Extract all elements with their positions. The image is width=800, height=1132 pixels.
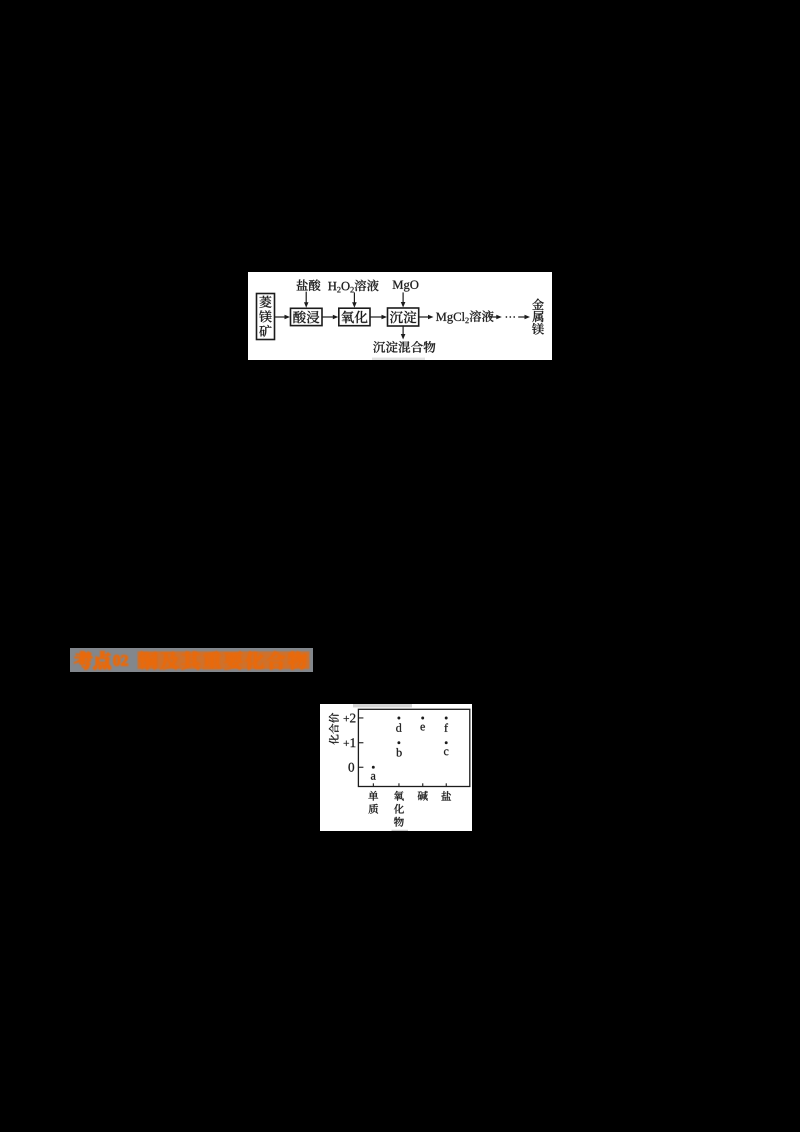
x label 氧化物	[394, 790, 404, 826]
wire arrow 酸浸→氧化	[322, 315, 338, 320]
data point e (碱,+2)	[420, 716, 424, 730]
label 酸浸	[293, 311, 319, 324]
box 菱镁矿 (ore feed)	[257, 294, 275, 340]
x label 盐	[441, 791, 451, 800]
scan smudge bottom	[372, 358, 425, 360]
banner title underlay	[138, 651, 310, 669]
data point a (单质,+0)	[371, 765, 376, 779]
box 沉淀 (precipitation)	[388, 308, 419, 326]
wire arrow MgCl2溶液→dots	[489, 315, 502, 320]
label 沉淀	[390, 311, 416, 324]
label 氧化	[341, 311, 367, 324]
data point b (氧化物,+1)	[396, 741, 402, 756]
valence chart panel (white scan area)	[320, 704, 472, 831]
label 盐酸	[297, 279, 321, 291]
scan smudge top	[353, 704, 412, 707]
label H2O2溶液	[328, 280, 379, 293]
data point d (氧化物,+2)	[396, 716, 401, 731]
box 酸浸 (acid leach)	[291, 308, 323, 325]
banner label 考点02	[75, 651, 111, 669]
banner title 铜及其重要化合物	[139, 651, 307, 670]
data point f (盐,+2)	[444, 716, 448, 731]
dots ...	[506, 316, 516, 318]
box 氧化 (oxidation)	[339, 308, 370, 326]
y tick +2	[344, 713, 364, 722]
label MgO	[393, 281, 419, 292]
x label 单质	[368, 790, 378, 813]
x label 碱	[418, 790, 428, 800]
section banner strip	[70, 648, 313, 673]
scan smudge bottom	[392, 829, 408, 831]
flow diagram panel (white scan area)	[248, 272, 552, 360]
wire arrow 沉淀→沉淀混合物	[401, 326, 406, 340]
wire arrow MgO→沉淀	[401, 292, 406, 307]
y tick +1	[344, 738, 364, 747]
x ticks	[373, 783, 447, 786]
wire arrow 氧化→沉淀	[370, 315, 387, 320]
data point c (盐,+1)	[444, 741, 448, 755]
wire arrow 菱镁矿→酸浸	[275, 315, 291, 320]
wire arrow 盐酸→酸浸	[304, 292, 309, 308]
label MgCl2溶液	[436, 310, 494, 323]
y axis label 化合价 (rotated)	[329, 712, 339, 744]
plot frame box	[358, 709, 469, 786]
wire arrow H2O2→氧化	[352, 292, 357, 307]
label 金属镁	[532, 299, 544, 335]
label 菱镁矿	[259, 296, 271, 337]
y tick 0	[349, 762, 364, 771]
wire arrow dots→金属镁	[518, 315, 530, 320]
label 沉淀混合物	[373, 341, 435, 353]
wire arrow 沉淀→MgCl2溶液	[419, 315, 434, 320]
